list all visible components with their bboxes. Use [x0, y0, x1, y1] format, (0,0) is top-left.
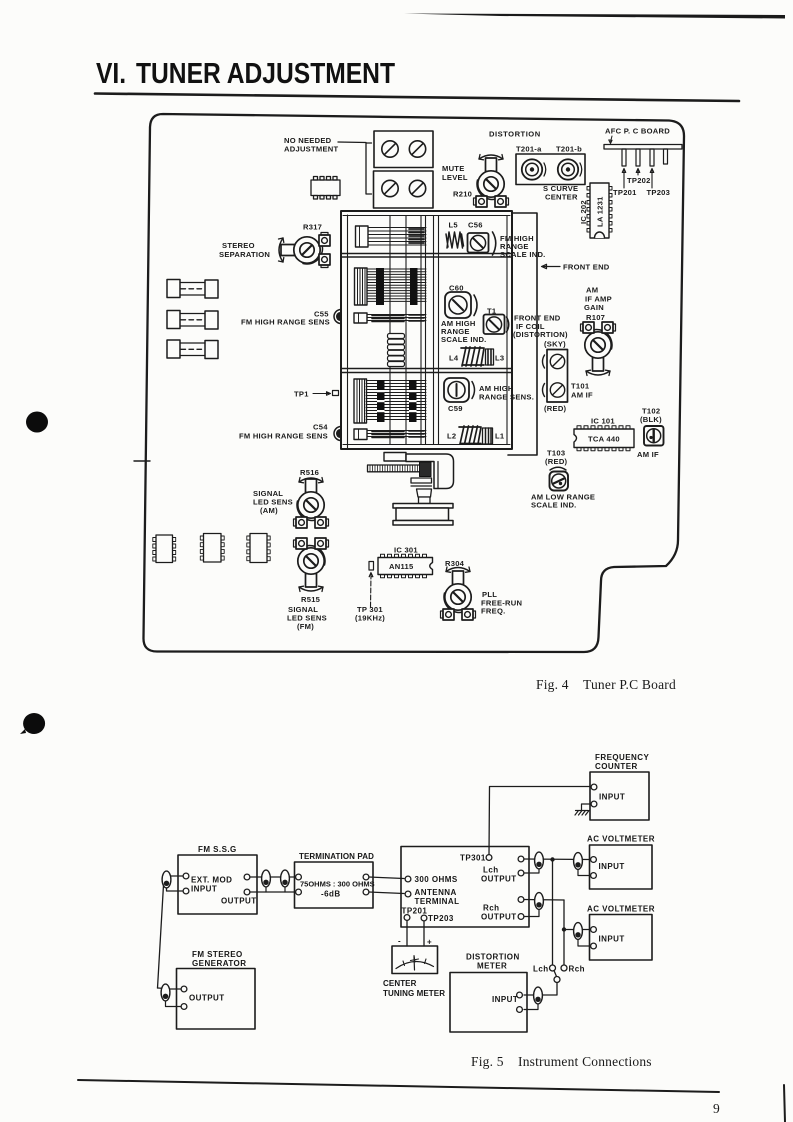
trimmer T102 [644, 426, 664, 446]
IC202 body [587, 183, 612, 238]
svg-text:L4: L4 [449, 354, 459, 363]
trimmer C54 bump on gang left edge [334, 427, 341, 441]
tuning gang outer frame [341, 211, 512, 449]
svg-text:T201-b: T201-b [556, 145, 582, 154]
coil L4 [461, 347, 484, 366]
transformer T201-a [522, 159, 546, 179]
test point TP301 pin [369, 562, 374, 571]
trimmer T103 [550, 472, 569, 491]
adjust arrow R515 [299, 586, 323, 591]
adjust arrow R304 [446, 567, 470, 572]
svg-text:T101: T101 [571, 382, 590, 391]
terminal Lch hot [518, 856, 524, 862]
svg-text:AC VOLTMETER: AC VOLTMETER [587, 905, 655, 914]
DIP IC lower-left 2 [200, 534, 224, 563]
FRONT END arrow [542, 264, 561, 268]
svg-text:R516: R516 [300, 468, 319, 477]
svg-text:AFC P. C BOARD: AFC P. C BOARD [605, 127, 670, 136]
test pin TP202 pin [636, 149, 640, 166]
trimmer C60 [445, 292, 471, 318]
svg-text:GAIN: GAIN [584, 303, 604, 312]
terminal Rch hot [518, 897, 524, 903]
section divider upper [341, 253, 512, 255]
svg-text:FM STEREO: FM STEREO [192, 950, 243, 959]
page top-right rule [404, 14, 785, 19]
svg-text:LA 1231: LA 1231 [596, 196, 605, 227]
junction Rch voltmeter tap [562, 927, 566, 931]
screw box upper [374, 131, 433, 168]
svg-text:(RED): (RED) [544, 404, 567, 413]
bracket C59 [472, 382, 475, 399]
coil core L1 [483, 428, 493, 444]
wire switch to distortion meter [524, 983, 557, 996]
switch pole [554, 977, 560, 983]
FM stereo generator box [177, 969, 256, 1030]
coax connector on SSG-pad wire 2 [284, 886, 286, 892]
arrow from AFC label [609, 136, 612, 144]
coax connector at SSG input [162, 871, 171, 888]
pulley stem [417, 489, 432, 497]
coax connector generator [166, 1000, 182, 1007]
svg-text:R107: R107 [586, 313, 605, 322]
svg-text:INPUT: INPUT [492, 995, 518, 1004]
svg-text:Fig. 4 Tuner P.C Board: Fig. 4 Tuner P.C Board [536, 677, 676, 692]
terminal Lch gnd [518, 870, 524, 876]
trimmer C55 bump on gang left edge [334, 310, 341, 324]
screw A1 [382, 141, 398, 157]
svg-text:(FM): (FM) [297, 622, 314, 631]
meter face [396, 961, 434, 968]
svg-text:FM S.S.G: FM S.S.G [198, 845, 237, 854]
wire pad to tuner upper [369, 877, 404, 879]
pulley [393, 504, 453, 509]
svg-text:INPUT: INPUT [599, 935, 625, 944]
svg-text:AM IF: AM IF [637, 450, 659, 459]
switch blade [554, 971, 557, 977]
svg-text:CENTER: CENTER [545, 193, 578, 202]
svg-text:FRONT END: FRONT END [563, 263, 610, 272]
dial lead screw rod [368, 465, 421, 472]
wire long vertical from generator [158, 885, 164, 988]
terminal VM1 gnd [591, 873, 597, 879]
coax connector distortion meter [524, 1003, 538, 1010]
section divider lower [341, 368, 512, 370]
svg-text:(AM): (AM) [260, 506, 278, 515]
trimmer C59 [444, 378, 469, 402]
wire Lch down to switch [552, 860, 554, 965]
wires TP201 TP203 to tuning meter [407, 921, 424, 947]
svg-text:C59: C59 [448, 404, 463, 413]
screw T101 upper [550, 354, 564, 368]
svg-text:Fig. 5 Instrument Connectio: Fig. 5 Instrument Connections [471, 1054, 652, 1069]
leader + bracket to screw boxes [338, 142, 372, 194]
terminal TP203 (fig5) [421, 915, 427, 921]
svg-text:T201-a: T201-a [516, 145, 542, 154]
svg-text:L2: L2 [447, 432, 456, 441]
svg-text:R317: R317 [303, 223, 322, 232]
adjust arc T103 [550, 467, 566, 470]
svg-text:EXT. MOD: EXT. MOD [191, 876, 232, 885]
svg-text:(RED): (RED) [545, 457, 568, 466]
gang right edge inner line [506, 216, 508, 445]
svg-text:L3: L3 [495, 354, 504, 363]
terminal distortion gnd [517, 1007, 523, 1013]
wire Rch down [563, 900, 565, 965]
svg-text:OUTPUT: OUTPUT [481, 875, 517, 884]
svg-text:(BLK): (BLK) [640, 415, 662, 424]
terminal TP301 (fig5) [486, 855, 492, 861]
drive knob [420, 462, 432, 477]
svg-text:TP1: TP1 [294, 390, 309, 399]
adjust arrow R107 [586, 370, 610, 375]
svg-text:(19KHz): (19KHz) [355, 614, 385, 623]
svg-text:(DISTORTION): (DISTORTION) [513, 330, 568, 339]
wire TP301 up to frequency counter [489, 787, 591, 855]
potentiometer R317 [281, 233, 330, 268]
svg-text:FM HIGH RANGE SENS: FM HIGH RANGE SENS [241, 318, 330, 327]
svg-text:FM HIGH RANGE SENS: FM HIGH RANGE SENS [239, 432, 328, 441]
left margin punch mark upper [26, 412, 48, 433]
svg-text:TP203: TP203 [647, 188, 671, 197]
coax connector on SSG-pad wire 1 [265, 886, 267, 892]
T201 box [516, 154, 585, 185]
svg-text:TP202: TP202 [627, 176, 651, 185]
potentiometer R107 [581, 322, 616, 371]
bracket C60 [474, 295, 477, 316]
IC301 body [378, 554, 433, 578]
svg-text:ADJUSTMENT: ADJUSTMENT [284, 145, 339, 154]
svg-text:TP301: TP301 [460, 854, 486, 863]
svg-text:TERMINAL: TERMINAL [415, 897, 460, 906]
screw box lower [374, 171, 434, 208]
svg-text:TERMINATION PAD: TERMINATION PAD [299, 852, 374, 861]
dial drive bellows [388, 334, 405, 367]
svg-text:SEPARATION: SEPARATION [219, 250, 270, 259]
svg-text:OUTPUT: OUTPUT [481, 913, 517, 922]
svg-text:300 OHMS: 300 OHMS [415, 875, 458, 884]
svg-text:Rch: Rch [569, 965, 585, 974]
wire SSG input from generator loop [171, 875, 183, 877]
terminal EXT MOD INPUT gnd [183, 888, 189, 894]
dial mechanism ledge [384, 453, 406, 462]
DIP IC lower-left 1 [153, 535, 176, 563]
svg-text:-6dB: -6dB [321, 890, 341, 899]
FM gang fins top section [356, 226, 427, 247]
svg-text:LEVEL: LEVEL [442, 173, 468, 182]
svg-text:+: + [427, 938, 432, 947]
coax connector Rch 1 [524, 908, 539, 917]
switch contact Rch [561, 965, 567, 971]
arrow to TP203 pin [650, 169, 654, 189]
tuner PC board outline [143, 114, 684, 652]
pad terminals left [296, 874, 302, 880]
potentiometer R304 [441, 571, 476, 620]
svg-text:METER: METER [477, 962, 507, 971]
bottom page rule [78, 1080, 719, 1092]
adjust arrow R516 [299, 478, 323, 483]
screw A2 [409, 141, 425, 157]
svg-text:FREQUENCY: FREQUENCY [595, 753, 649, 762]
svg-text:CENTER: CENTER [383, 979, 417, 988]
svg-text:OUTPUT: OUTPUT [221, 897, 257, 906]
FM S.S.G box [178, 855, 257, 914]
svg-text:C56: C56 [468, 221, 483, 230]
wire Rch to right [524, 899, 564, 902]
coil core L3 [486, 349, 494, 365]
svg-text:INPUT: INPUT [191, 885, 217, 894]
bracket T1 [507, 317, 509, 332]
AFC board edge bar [604, 145, 682, 150]
screw B1 [382, 180, 398, 196]
termination pad box [295, 862, 374, 908]
transformer T201-b [558, 159, 582, 179]
wire pad to tuner lower [369, 892, 404, 894]
terminal generator output hot [181, 986, 187, 992]
paren marks T101 [543, 355, 545, 397]
terminal antenna [405, 891, 411, 897]
svg-text:DISTORTION: DISTORTION [466, 953, 520, 962]
dial cord guide lines [389, 216, 391, 445]
svg-text:TUNING METER: TUNING METER [383, 989, 445, 998]
svg-text:SCALE IND.: SCALE IND. [531, 501, 577, 510]
svg-text:DISTORTION: DISTORTION [489, 130, 541, 139]
right margin binding dash [784, 1085, 785, 1122]
wire Lch to voltmeter [524, 858, 590, 861]
svg-text:(SKY): (SKY) [544, 340, 566, 349]
IC101 body [574, 426, 634, 451]
svg-text:L5: L5 [449, 221, 459, 230]
terminal 300 OHMS [405, 876, 411, 882]
coax connector Lch 2 [578, 868, 590, 876]
terminal VM2 input [591, 927, 597, 933]
distortion meter box [450, 973, 527, 1033]
svg-text:C54: C54 [313, 423, 328, 432]
terminal SSG OUTPUT gnd [244, 889, 250, 895]
svg-text:IC 301: IC 301 [394, 546, 418, 555]
left margin punch mark lower [20, 713, 45, 734]
dial mechanism bracket [406, 454, 454, 489]
svg-text:-: - [398, 937, 401, 946]
svg-text:TP203: TP203 [428, 914, 454, 923]
small fin row bottom [354, 429, 426, 440]
IF transformer T101 strip [547, 350, 568, 403]
svg-text:INPUT: INPUT [599, 793, 625, 802]
AM gang fins bottom section [354, 379, 426, 423]
frequency counter box [590, 772, 649, 820]
svg-text:AC VOLTMETER: AC VOLTMETER [587, 835, 655, 844]
electrolytic cap 1 [167, 280, 218, 299]
electrolytic cap 2 [167, 311, 218, 330]
svg-text:Lch: Lch [483, 866, 499, 875]
DIP IC lower-left 3 [247, 534, 270, 563]
svg-text:GENERATOR: GENERATOR [192, 959, 246, 968]
center tuning meter box [392, 946, 438, 974]
coil L5 [446, 232, 464, 248]
coil L2 [459, 426, 481, 444]
coax connector VM2 [578, 938, 590, 946]
switch contact Lch [550, 965, 556, 971]
svg-text:9: 9 [713, 1101, 720, 1116]
svg-text:ANTENNA: ANTENNA [415, 888, 457, 897]
front end boundary line [508, 213, 537, 455]
arrow to TP202 pin [636, 169, 640, 176]
svg-text:TP201: TP201 [402, 907, 428, 916]
small DIP IC near screw boxes [311, 177, 340, 200]
svg-text:Rch: Rch [483, 904, 499, 913]
trimmer T1 [484, 315, 505, 335]
svg-text:R210: R210 [453, 190, 472, 199]
terminal TP201 (fig5) [404, 915, 410, 921]
test pin TP203 pin [650, 149, 654, 166]
terminal generator output gnd [181, 1004, 187, 1010]
screw B2 [409, 180, 425, 196]
tuner under test box [401, 847, 529, 928]
svg-text:MUTE: MUTE [442, 164, 465, 173]
wire SSG to pad lower [250, 891, 295, 893]
terminal freq counter gnd [591, 801, 597, 807]
adjust arrow R317 [279, 238, 284, 262]
electrolytic cap 3 [167, 340, 218, 359]
potentiometer R515 [294, 538, 329, 587]
wire generator loop bottom [158, 988, 182, 989]
svg-text:SCALE IND.: SCALE IND. [441, 335, 487, 344]
terminal VM1 input [591, 857, 597, 863]
svg-text:AN115: AN115 [389, 562, 414, 571]
left edge stub [134, 460, 150, 462]
test pin TP201 pin [622, 149, 626, 166]
coax connector Lch 1 [524, 868, 539, 874]
wire tap to voltmeter 2 [564, 929, 590, 931]
svg-text:IC 101: IC 101 [591, 417, 615, 426]
AM gang fins middle section [355, 268, 427, 305]
terminal EXT MOD INPUT hot [183, 873, 189, 879]
junction Lch [550, 857, 554, 861]
arrow to TP301 [369, 573, 373, 608]
screw T101 lower [550, 383, 564, 397]
svg-text:INPUT: INPUT [599, 862, 625, 871]
svg-text:R515: R515 [301, 595, 321, 604]
wire shield hook to input gnd [167, 888, 184, 891]
pad terminals right [363, 874, 369, 880]
ground symbol [575, 804, 591, 815]
AC voltmeter 2 box [590, 915, 653, 961]
small fin row below AM gang [354, 313, 426, 323]
terminal distortion input [517, 992, 523, 998]
svg-text:IC 202: IC 202 [579, 200, 588, 224]
bracket C56 [493, 232, 496, 255]
terminal freq counter input [591, 784, 597, 790]
svg-text:75OHMS : 300 OHMS: 75OHMS : 300 OHMS [300, 880, 375, 889]
wire SSG to pad upper [250, 876, 295, 878]
AC voltmeter 1 box [590, 845, 653, 889]
spare pin [664, 149, 668, 164]
potentiometer R516 [294, 479, 329, 528]
svg-text:VI. TUNER ADJUSTMENT: VI. TUNER ADJUSTMENT [96, 58, 395, 90]
svg-text:AM: AM [586, 286, 598, 295]
terminal SSG OUTPUT hot [244, 874, 250, 880]
svg-text:AM IF: AM IF [571, 391, 593, 400]
svg-text:FREQ.: FREQ. [481, 607, 505, 616]
trimmer C56 [468, 233, 489, 253]
svg-text:L1: L1 [495, 432, 505, 441]
adjust arrow R210 [479, 155, 503, 160]
arrow to TP201 pin [622, 169, 626, 189]
svg-text:OUTPUT: OUTPUT [189, 994, 225, 1003]
title rule [95, 94, 739, 102]
svg-text:Lch: Lch [533, 965, 549, 974]
potentiometer R210 [474, 158, 509, 207]
clamp plate [411, 478, 432, 483]
terminal Rch gnd [518, 914, 524, 920]
svg-text:COUNTER: COUNTER [595, 762, 638, 771]
svg-text:STEREO: STEREO [222, 241, 255, 250]
svg-text:R304: R304 [445, 559, 465, 568]
svg-text:TCA 440: TCA 440 [588, 435, 620, 444]
svg-text:TP201: TP201 [613, 188, 637, 197]
terminal VM2 gnd [591, 943, 597, 949]
